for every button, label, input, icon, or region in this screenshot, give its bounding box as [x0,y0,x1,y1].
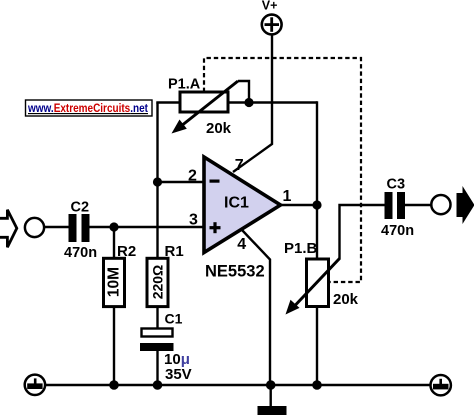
label P1.A [168,77,201,93]
potentiometer P1.A body [180,92,228,112]
resistor R2 [104,258,125,306]
value label 20k (P1.B) [333,291,359,308]
label NE5532 [205,263,265,281]
wire pin 4 to ground rail [242,230,270,385]
svg-text:www.ExtremeCircuits.net: www.ExtremeCircuits.net [27,103,148,115]
input arrow [0,210,17,247]
svg-text:R1: R1 [165,243,184,260]
svg-text:4: 4 [237,236,246,253]
wire C2 to pin 3 of op-amp [90,226,206,228]
label P1.B [284,240,318,257]
svg-text:20k: 20k [333,291,359,308]
wire feedback vertical to output node [316,101,318,205]
wire P1.B wiper riser [340,205,386,260]
op-amp plus sign [210,222,221,233]
svg-text:C1: C1 [165,311,183,327]
wire op-amp output pin 1 [278,204,317,206]
svg-text:P1.B: P1.B [284,240,318,257]
op-amp U1 triangle [204,157,281,253]
pin number 7 [235,157,244,174]
label C2 [71,200,90,216]
dashed gang coupling P1.A to P1.B [204,58,361,282]
wire P1.A left terminal [156,101,181,103]
label R1 [165,243,184,260]
wire pin 2 of op-amp [158,181,206,183]
value label 35V [165,366,192,383]
ground terminal left [25,375,45,395]
op-amp minus sign [210,180,220,183]
svg-text:C2: C2 [71,200,90,216]
pin number 3 [189,211,198,228]
potentiometer P1.B wiper arrow [286,259,340,315]
svg-text:470n: 470n [381,223,414,239]
node rail/C1 [153,380,163,390]
value label 470n (C3) [381,223,414,239]
pin number 4 [237,236,246,253]
svg-text:10M: 10M [106,267,123,297]
value label 20k (P1.A) [206,120,232,137]
svg-text:IC1: IC1 [224,195,249,212]
svg-text:470n: 470n [64,245,97,261]
value label 470n (C2) [64,245,97,261]
pin number 1 [283,188,292,205]
wire P1.B bottom lead [316,307,318,386]
ground bar [258,406,287,415]
svg-text:1: 1 [283,188,292,205]
output arrow [457,186,474,224]
svg-text:20k: 20k [206,120,232,137]
wire input terminal to C2 [44,226,69,228]
svg-text:C3: C3 [387,176,406,192]
node pin2/R1/P1.A junction [153,177,162,186]
wire feedback vertical x=157 (P1.A left to R1 top) [156,103,158,260]
ground rail [45,384,432,387]
svg-text:P1.A: P1.A [168,77,201,93]
label C3 [387,176,406,192]
node junction C2/R2 [109,222,118,231]
svg-text:220Ω: 220Ω [150,265,166,300]
wire pin 7 to V+ [233,35,272,173]
label IC1 [224,195,249,212]
input terminal circle [25,218,44,237]
svg-text:V+: V+ [262,0,278,12]
svg-text:NE5532: NE5532 [205,263,265,281]
logo www.ExtremeCircuits.net [26,100,153,116]
node P1.A wiper junction [244,98,253,107]
wire P1.A right to feedback vertical [228,101,317,103]
label V+ [262,0,278,12]
wire R1 bottom to C1 [156,307,158,330]
potentiometer P1.B body [307,259,329,307]
svg-text:2: 2 [188,167,197,184]
svg-text:R2: R2 [117,243,136,260]
wire P1.B top lead [316,205,318,260]
node rail/R2 [109,380,119,390]
wire C3 to output terminal [405,204,431,206]
value label 10u [164,351,190,368]
value label 10M [106,267,123,297]
label R2 [117,243,136,260]
wire R2 top lead [113,227,115,259]
node rail/pin4 [266,380,276,390]
svg-text:3: 3 [189,211,198,228]
V+ terminal [262,15,282,35]
potentiometer P1.A wiper arrow [172,81,239,134]
capacitor C2 [69,214,90,242]
capacitor C3 [385,192,406,219]
output terminal circle [431,195,450,214]
node rail/P1.B [312,380,322,390]
pin number 2 [188,167,197,184]
value label 220 ohm [150,265,166,300]
resistor R1 [147,258,168,306]
node output junction [312,200,321,209]
ground terminal right [431,375,451,395]
capacitor C1 (electrolytic) [140,329,174,352]
wire C1 bottom lead [156,351,158,385]
svg-text:35V: 35V [165,366,192,383]
wire to ground bar [270,385,272,406]
wire P1.A wiper to right terminal [238,81,249,103]
wire R2 bottom lead [113,307,115,386]
label C1 [165,311,183,327]
